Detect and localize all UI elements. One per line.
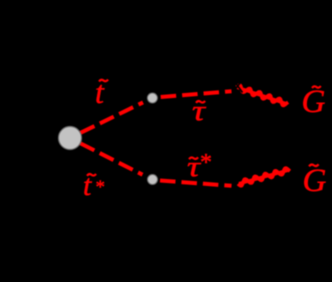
tilde of label tau~* bbox=[189, 157, 198, 159]
lower label G~ letter bbox=[303, 165, 327, 198]
wire: anti-stau line tau~* (lower vertex to squiggle) bbox=[160, 181, 232, 186]
tilde of upper label G~ bbox=[312, 86, 321, 88]
upper decay vertex node bbox=[147, 93, 157, 103]
wire: upper gravitino squiggle base bbox=[237, 87, 287, 104]
label t~ letter bbox=[95, 76, 104, 108]
black tau line crossing upper squiggle bbox=[233, 80, 243, 93]
tilde of label tau~ bbox=[196, 101, 205, 103]
wire: anti-stop line t~* (blob to lower decay vertex) bbox=[81, 143, 143, 174]
wire: lower gravitino squiggle base bbox=[239, 170, 289, 184]
tilde of label t~ bbox=[99, 80, 108, 82]
label tau~* letter bbox=[187, 153, 200, 182]
wire: stau line tau~ (upper vertex to squiggle) bbox=[161, 91, 232, 97]
tilde of label t~* bbox=[87, 174, 96, 176]
wire: stop line t~ (blob to upper decay vertex) bbox=[81, 102, 144, 132]
lower decay vertex node bbox=[148, 175, 158, 185]
tilde of lower label G~ bbox=[309, 164, 319, 166]
label t~* letter bbox=[83, 171, 91, 201]
production vertex blob bbox=[59, 127, 82, 150]
wire: upper gravitino squiggle wave bbox=[237, 85, 289, 105]
label tau~* asterisk bbox=[200, 151, 212, 175]
wire: lower gravitino squiggle wave bbox=[238, 168, 290, 186]
label tau~ letter bbox=[192, 97, 205, 126]
upper label G~ letter bbox=[302, 86, 326, 119]
label t~* asterisk bbox=[96, 178, 106, 197]
